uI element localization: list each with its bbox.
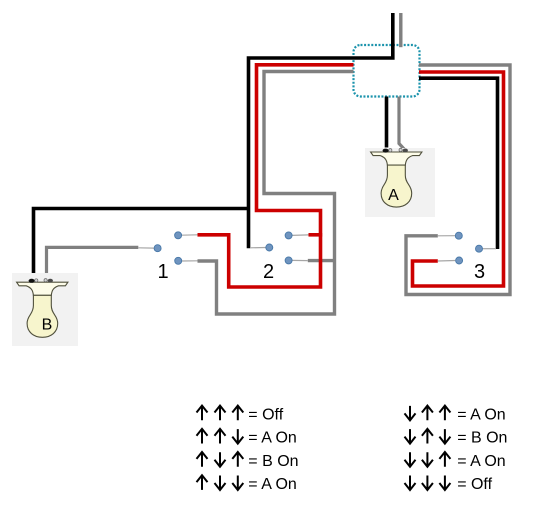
truth table row: down down down = Off [405, 476, 493, 494]
svg-text:B: B [42, 317, 53, 334]
switch 1 lead to bottom traveler [182, 260, 198, 262]
wire: gray stub to switch 2 bottom traveler [308, 259, 336, 262]
truth table row: down up up = A On [405, 406, 506, 424]
switch 3 top traveler terminal [455, 232, 462, 239]
switch 1 top traveler terminal [175, 232, 182, 239]
wire: gray neutral from lamp B to switch 1 common [47, 247, 139, 280]
wire: black hot feed from ceiling through box, left and down to switch 2 common [249, 13, 393, 248]
wire: black from box right side down to switch 3 common [419, 78, 498, 249]
svg-text:3: 3 [474, 261, 485, 283]
switch 3 lead to common [483, 248, 497, 250]
switch 3 label [474, 261, 485, 283]
wire: gray neutral drop from ceiling into box [399, 13, 402, 47]
wire: gray neutral from box to lamp A [399, 97, 405, 150]
truth table row: down up down = B On [405, 429, 508, 447]
wire: black branch to lamp B [32, 209, 249, 281]
svg-text:= B On: = B On [457, 430, 507, 447]
wire: gray traveler left bundle to switches 1 and 2 [198, 72, 354, 315]
junction box J1 [354, 45, 420, 97]
svg-text:= A On: = A On [248, 430, 296, 447]
svg-text:= A On: = A On [248, 476, 296, 493]
truth table row: up up down = A On [197, 429, 297, 447]
svg-text:A: A [388, 187, 399, 204]
switch 2 common terminal [266, 244, 273, 251]
truth table row: up up up = Off [197, 406, 284, 424]
truth table row: up down down = A On [197, 475, 297, 493]
switch 3 lead to top traveler [438, 235, 455, 237]
truth table row: up down up = B On [197, 452, 299, 470]
wire: red stub to switch 2 top traveler [309, 233, 323, 237]
lamp A fixture [365, 148, 435, 217]
switch 1 label [157, 261, 168, 283]
svg-text:= A On: = A On [457, 453, 505, 470]
svg-text:= B On: = B On [248, 453, 298, 470]
truth table row: down down up = A On [405, 452, 506, 470]
switch 2 label [263, 261, 274, 283]
switch 2 lead to bottom traveler [292, 259, 308, 261]
svg-text:1: 1 [157, 261, 168, 283]
switch 1 common terminal [154, 245, 161, 252]
switch 3 common terminal [476, 245, 483, 252]
wire: red traveler bundle right of box to switch 3 bottom traveler [413, 72, 504, 286]
wire: red traveler left bundle to switches 1 and 2 [198, 65, 354, 287]
svg-text:2: 2 [263, 261, 274, 283]
switch 3 lead to bottom traveler [438, 260, 455, 263]
switch 1 lead to common [138, 247, 154, 249]
switch 1 lead to top traveler [182, 234, 198, 236]
svg-text:= A On: = A On [457, 407, 505, 424]
switch 2 lead to top traveler [292, 234, 309, 237]
switch 2 bottom traveler terminal [285, 257, 292, 264]
switch 2 lead to common [250, 247, 266, 249]
switch 3 bottom traveler terminal [456, 257, 463, 264]
svg-text:= Off: = Off [248, 407, 283, 424]
wire: gray traveler bundle right of box to switch 3 top traveler [406, 65, 510, 295]
lamp B fixture [12, 273, 78, 346]
svg-text:= Off: = Off [457, 476, 492, 493]
wire: black switched leg from box to lamp A [385, 97, 389, 148]
switch 1 bottom traveler terminal [175, 257, 182, 264]
switch 2 top traveler terminal [285, 232, 292, 239]
